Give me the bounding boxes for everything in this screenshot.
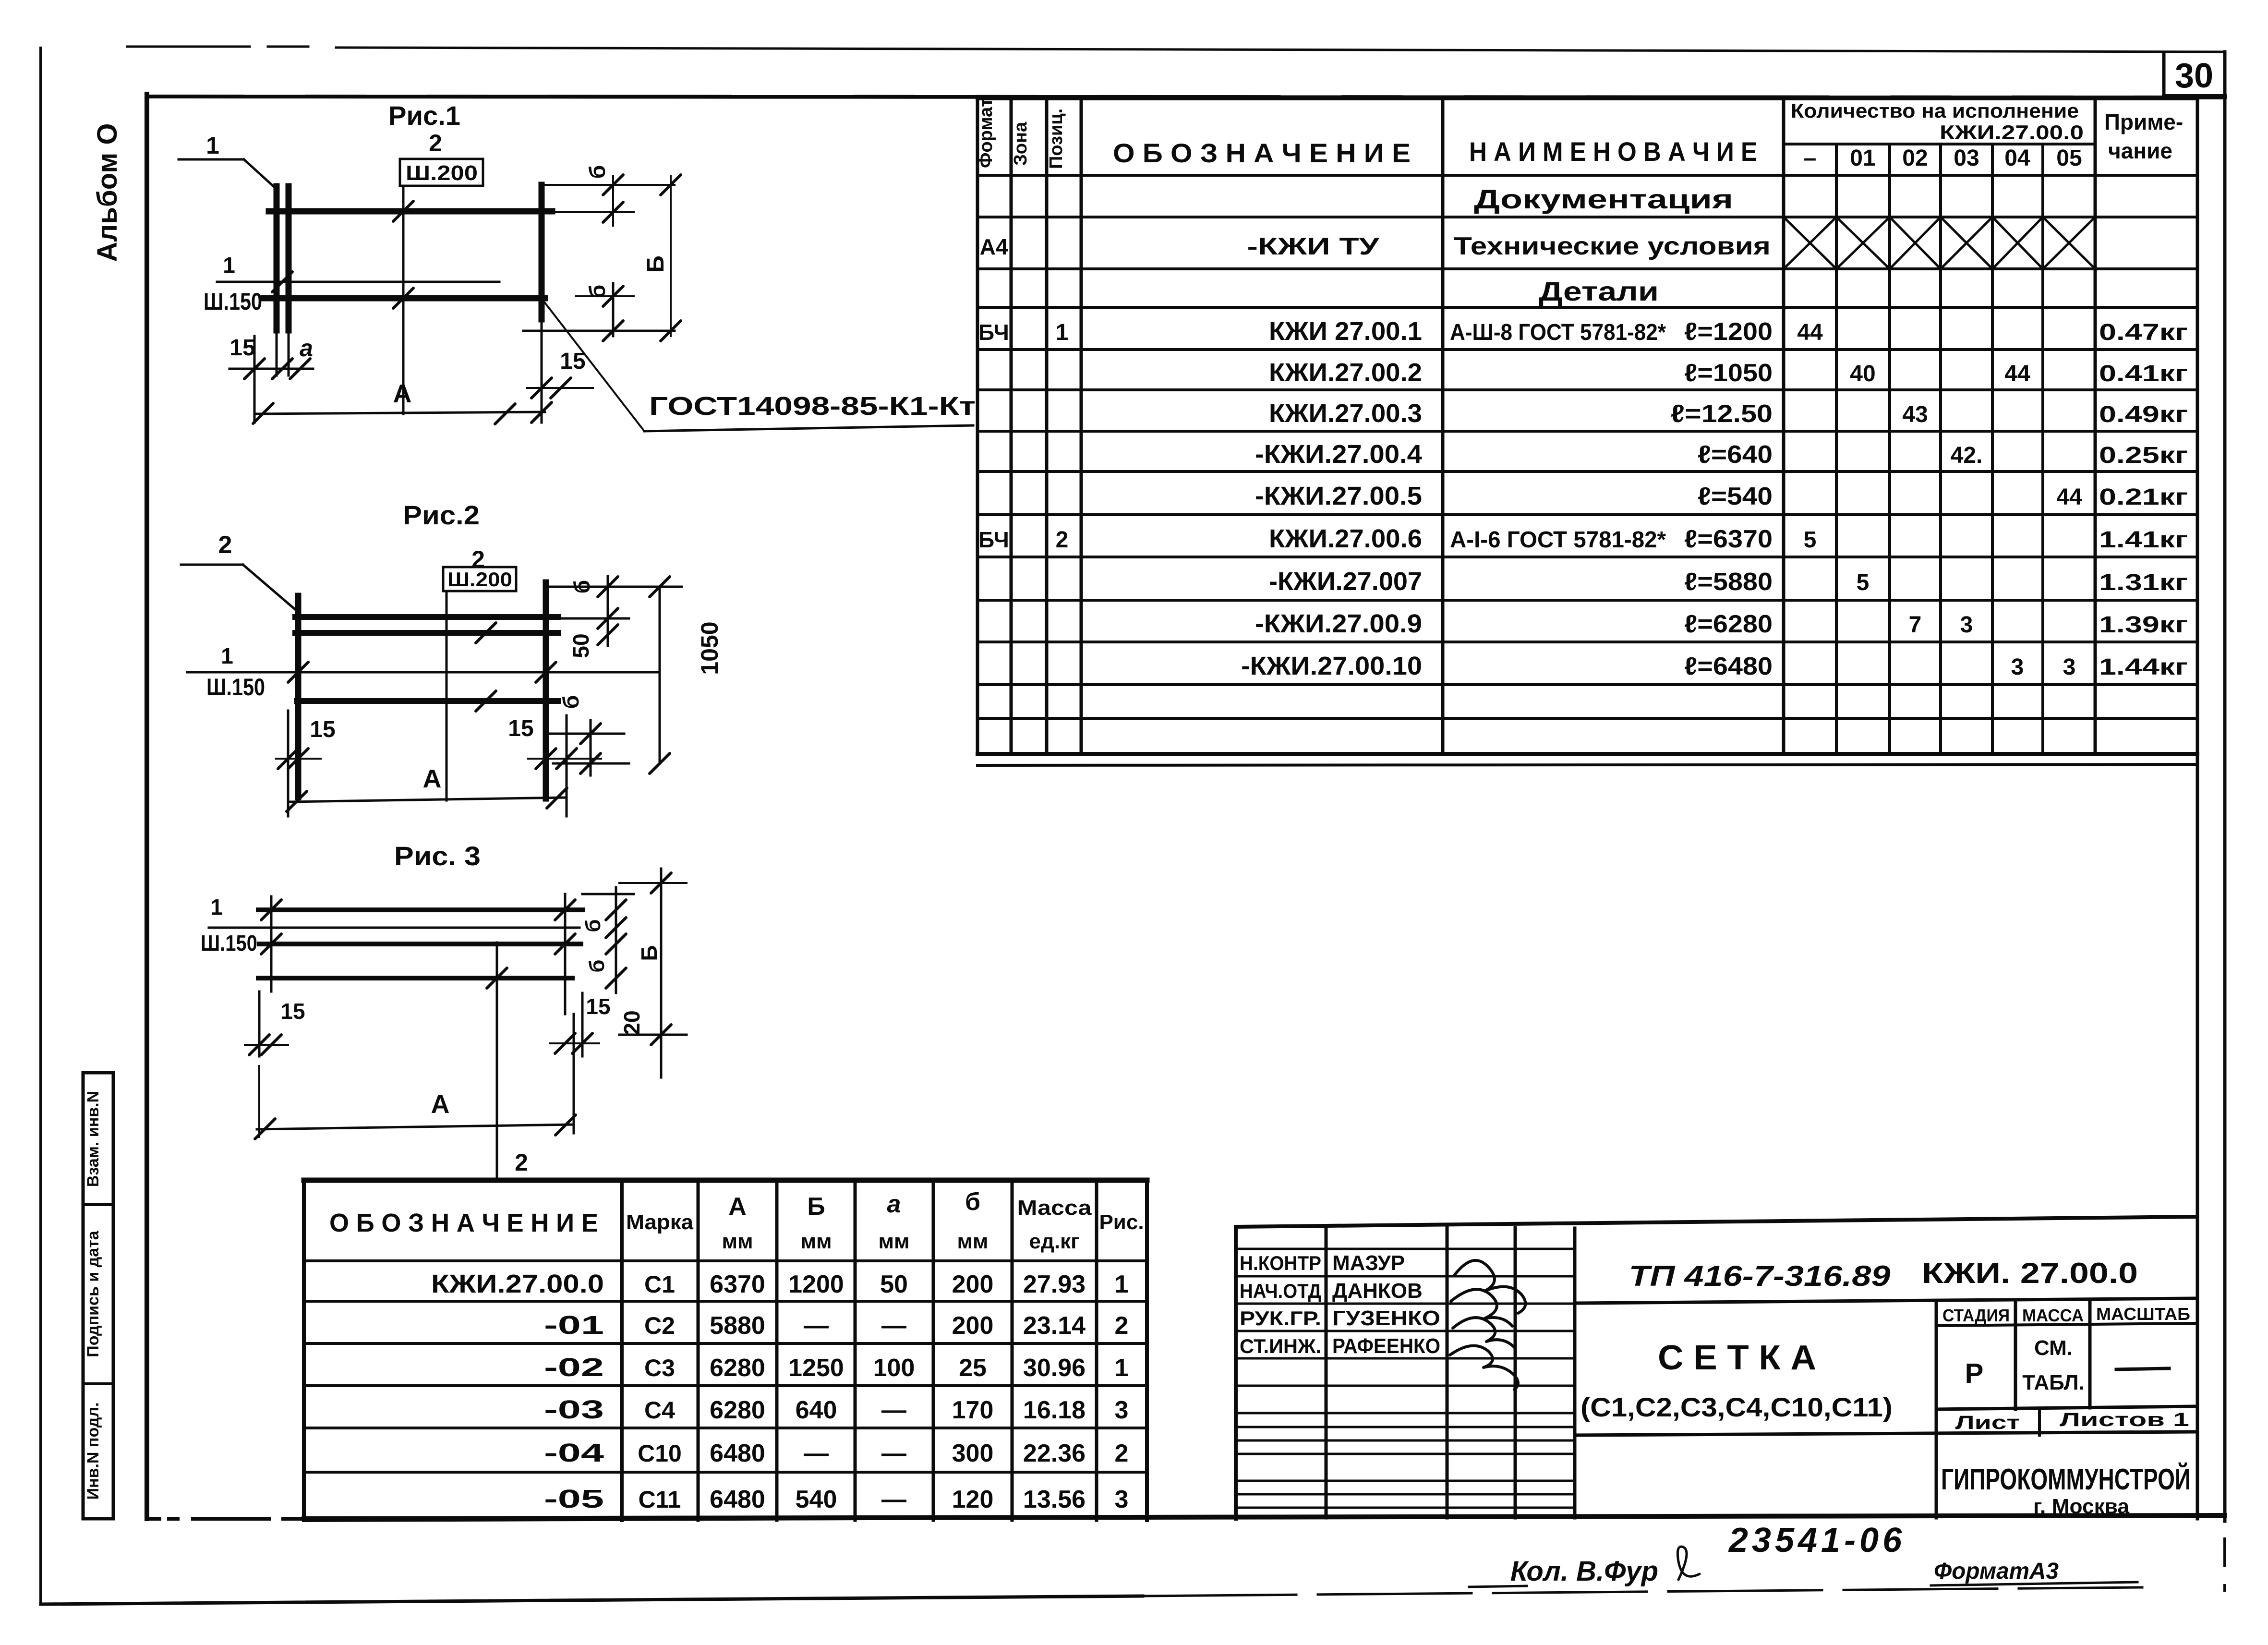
svg-text:А-Ш-8 ГОСТ 5781-82*: А-Ш-8 ГОСТ 5781-82* <box>1450 320 1666 345</box>
svg-text:42.: 42. <box>1951 443 1983 468</box>
svg-text:43: 43 <box>1902 402 1928 427</box>
svg-text:мм: мм <box>878 1230 909 1253</box>
svg-text:ед.кг: ед.кг <box>1029 1230 1080 1253</box>
svg-text:С10: С10 <box>638 1440 682 1467</box>
svg-text:1: 1 <box>210 895 223 919</box>
svg-text:Позиц.: Позиц. <box>1046 109 1066 169</box>
svg-text:А: А <box>431 1090 450 1119</box>
svg-text:ℓ=1200: ℓ=1200 <box>1684 318 1773 346</box>
svg-text:Рис.2: Рис.2 <box>403 500 480 530</box>
svg-text:27.93: 27.93 <box>1023 1270 1086 1298</box>
svg-text:Зона: Зона <box>1011 121 1031 166</box>
svg-text:СТ.ИНЖ.: СТ.ИНЖ. <box>1240 1335 1321 1357</box>
svg-text:3: 3 <box>2011 654 2024 680</box>
svg-text:Ш.150: Ш.150 <box>206 674 265 701</box>
svg-text:–: – <box>1804 145 1817 171</box>
svg-text:200: 200 <box>952 1312 994 1340</box>
svg-text:б: б <box>585 165 610 179</box>
svg-text:МАССА: МАССА <box>2022 1306 2084 1325</box>
svg-text:3: 3 <box>1115 1486 1129 1513</box>
svg-text:20: 20 <box>619 1010 644 1035</box>
svg-text:15: 15 <box>229 335 255 361</box>
svg-text:КЖИ. 27.00.0: КЖИ. 27.00.0 <box>1922 1257 2138 1289</box>
svg-text:0.49кг: 0.49кг <box>2099 402 2188 427</box>
svg-text:25: 25 <box>959 1354 987 1382</box>
svg-text:1: 1 <box>206 132 219 159</box>
svg-text:-КЖИ.27.00.4: -КЖИ.27.00.4 <box>1255 440 1422 469</box>
svg-text:Листов 1: Листов 1 <box>2060 1409 2189 1430</box>
svg-text:120: 120 <box>952 1486 994 1513</box>
svg-text:16.18: 16.18 <box>1023 1396 1086 1424</box>
svg-text:7: 7 <box>1909 612 1922 638</box>
svg-text:2: 2 <box>1115 1312 1129 1340</box>
svg-text:5880: 5880 <box>710 1312 765 1340</box>
svg-text:Лист: Лист <box>1955 1412 2020 1433</box>
svg-text:40: 40 <box>1850 361 1875 387</box>
svg-text:0.25кг: 0.25кг <box>2099 443 2188 468</box>
svg-text:0.21кг: 0.21кг <box>2099 484 2188 510</box>
svg-text:1250: 1250 <box>788 1354 844 1382</box>
svg-text:б: б <box>585 959 609 972</box>
svg-text:2: 2 <box>1115 1439 1129 1467</box>
svg-text:-КЖИ.27.00.5: -КЖИ.27.00.5 <box>1255 482 1422 510</box>
svg-text:05: 05 <box>2056 145 2082 171</box>
svg-text:1: 1 <box>223 253 235 278</box>
svg-text:Технические условия: Технические условия <box>1454 232 1771 260</box>
svg-text:мм: мм <box>800 1230 832 1253</box>
svg-text:-01: -01 <box>544 1311 604 1340</box>
svg-text:ℓ=12.50: ℓ=12.50 <box>1671 400 1773 428</box>
svg-text:БЧ: БЧ <box>978 320 1009 345</box>
svg-text:ℓ=1050: ℓ=1050 <box>1684 359 1773 387</box>
svg-text:—: — <box>804 1312 829 1340</box>
svg-text:ДАНКОВ: ДАНКОВ <box>1332 1279 1423 1303</box>
svg-text:1050: 1050 <box>696 621 723 675</box>
svg-text:6280: 6280 <box>710 1354 765 1382</box>
svg-text:С4: С4 <box>644 1397 675 1424</box>
svg-text:(С1,С2,С3,С4,С10,С11): (С1,С2,С3,С4,С10,С11) <box>1580 1392 1893 1422</box>
svg-text:300: 300 <box>952 1439 994 1467</box>
svg-text:ТАБЛ.: ТАБЛ. <box>2022 1371 2085 1394</box>
svg-text:1.44кг: 1.44кг <box>2099 654 2188 680</box>
svg-text:СТАДИЯ: СТАДИЯ <box>1942 1306 2010 1325</box>
svg-text:МАСШТАБ: МАСШТАБ <box>2096 1304 2190 1324</box>
svg-text:3: 3 <box>1115 1396 1129 1424</box>
svg-text:ГОСТ14098-85-К1-Кт: ГОСТ14098-85-К1-Кт <box>649 392 976 421</box>
svg-text:ℓ=6480: ℓ=6480 <box>1684 653 1773 680</box>
svg-text:С2: С2 <box>644 1312 675 1339</box>
svg-text:Подпись и дата: Подпись и дата <box>84 1230 102 1357</box>
svg-text:А: А <box>393 379 412 408</box>
svg-text:—: — <box>804 1439 829 1467</box>
svg-text:КЖИ.27.00.0: КЖИ.27.00.0 <box>431 1270 604 1298</box>
svg-text:б: б <box>585 285 610 298</box>
svg-text:15: 15 <box>310 717 335 742</box>
svg-text:Масса: Масса <box>1017 1196 1092 1220</box>
svg-text:0.41кг: 0.41кг <box>2099 361 2188 387</box>
svg-text:Р: Р <box>1965 1358 1984 1389</box>
svg-text:1.39кг: 1.39кг <box>2099 612 2188 638</box>
svg-text:ФорматА3: ФорматА3 <box>1934 1559 2059 1584</box>
svg-text:МАЗУР: МАЗУР <box>1332 1251 1405 1275</box>
svg-text:1200: 1200 <box>788 1270 844 1298</box>
svg-text:ℓ=5880: ℓ=5880 <box>1684 568 1773 596</box>
svg-text:Документация: Документация <box>1474 184 1733 214</box>
svg-text:а: а <box>887 1190 901 1218</box>
svg-text:Н А И М Е Н О В А Ч И Е: Н А И М Е Н О В А Ч И Е <box>1469 136 1757 167</box>
svg-text:СМ.: СМ. <box>2034 1336 2073 1360</box>
svg-text:ГУЗЕНКО: ГУЗЕНКО <box>1332 1306 1440 1330</box>
svg-text:А4: А4 <box>980 234 1008 259</box>
svg-text:2: 2 <box>515 1149 528 1176</box>
svg-text:ℓ=6280: ℓ=6280 <box>1684 610 1773 638</box>
svg-text:15: 15 <box>586 994 610 1019</box>
svg-text:РУК.ГР.: РУК.ГР. <box>1240 1307 1321 1330</box>
svg-text:1: 1 <box>221 643 233 668</box>
svg-text:03: 03 <box>1954 145 1979 171</box>
svg-text:Н.КОНТР: Н.КОНТР <box>1240 1252 1321 1274</box>
svg-text:Рис.: Рис. <box>1099 1210 1144 1234</box>
svg-text:Б: Б <box>637 945 662 961</box>
svg-text:б: б <box>965 1188 980 1216</box>
svg-text:6480: 6480 <box>710 1486 765 1513</box>
svg-text:Кол. В.Фур: Кол. В.Фур <box>1510 1556 1658 1587</box>
svg-text:Рис.1: Рис.1 <box>388 100 460 131</box>
svg-text:5: 5 <box>1804 527 1817 553</box>
svg-text:Рис. 3: Рис. 3 <box>394 841 481 871</box>
svg-text:-02: -02 <box>544 1353 604 1382</box>
svg-text:30.96: 30.96 <box>1023 1354 1086 1382</box>
svg-text:44: 44 <box>2004 361 2030 387</box>
svg-text:НАЧ.ОТД: НАЧ.ОТД <box>1240 1280 1321 1302</box>
svg-text:А: А <box>423 764 442 793</box>
svg-text:-03: -03 <box>544 1395 604 1424</box>
svg-text:640: 640 <box>796 1396 837 1424</box>
svg-text:04: 04 <box>2004 145 2030 171</box>
svg-text:-04: -04 <box>544 1439 604 1467</box>
svg-text:13.56: 13.56 <box>1023 1486 1086 1513</box>
svg-text:-КЖИ.27.00.10: -КЖИ.27.00.10 <box>1241 652 1422 680</box>
svg-text:Альбом О: Альбом О <box>92 123 123 262</box>
svg-text:15: 15 <box>280 999 305 1024</box>
svg-text:-КЖИ.27.007: -КЖИ.27.007 <box>1269 567 1422 596</box>
svg-text:ТП 416-7-316.89: ТП 416-7-316.89 <box>1629 1260 1891 1292</box>
svg-text:Взам. инв.N: Взам. инв.N <box>84 1091 102 1187</box>
svg-text:Количество на исполнение: Количество на исполнение <box>1791 99 2079 122</box>
svg-text:02: 02 <box>1902 145 1928 171</box>
svg-text:КЖИ.27.00.3: КЖИ.27.00.3 <box>1269 399 1422 428</box>
svg-text:Б: Б <box>807 1193 825 1221</box>
svg-text:С3: С3 <box>644 1355 675 1381</box>
svg-text:1: 1 <box>1115 1270 1129 1298</box>
svg-text:О Б О З Н А Ч Е Н И Е: О Б О З Н А Ч Е Н И Е <box>329 1209 598 1237</box>
svg-text:ℓ=6370: ℓ=6370 <box>1684 525 1773 553</box>
svg-text:—: — <box>881 1312 906 1340</box>
svg-text:О Б О З Н А Ч Е Н И Е: О Б О З Н А Ч Е Н И Е <box>1113 138 1411 168</box>
svg-text:б: б <box>569 580 594 593</box>
svg-text:-КЖИ.27.00.9: -КЖИ.27.00.9 <box>1255 609 1422 638</box>
svg-text:г. Москва: г. Москва <box>2033 1495 2130 1518</box>
svg-text:-КЖИ ТУ: -КЖИ ТУ <box>1247 233 1380 260</box>
svg-text:Ш.200: Ш.200 <box>406 161 478 185</box>
svg-text:—: — <box>881 1396 906 1424</box>
svg-text:100: 100 <box>873 1354 915 1382</box>
svg-text:15: 15 <box>560 349 585 374</box>
svg-text:5: 5 <box>1857 570 1870 595</box>
svg-text:—: — <box>881 1439 906 1467</box>
svg-text:БЧ: БЧ <box>978 527 1009 552</box>
svg-text:РАФЕЕНКО: РАФЕЕНКО <box>1332 1334 1440 1358</box>
svg-text:1.41кг: 1.41кг <box>2099 527 2188 553</box>
svg-text:КЖИ.27.00.2: КЖИ.27.00.2 <box>1269 358 1422 387</box>
svg-text:—: — <box>881 1486 906 1513</box>
svg-text:6480: 6480 <box>710 1439 765 1467</box>
svg-text:КЖИ 27.00.1: КЖИ 27.00.1 <box>1269 317 1422 346</box>
svg-text:КЖИ.27.00.0: КЖИ.27.00.0 <box>1940 121 2084 144</box>
svg-text:Марка: Марка <box>626 1210 694 1234</box>
svg-text:30: 30 <box>2175 57 2213 95</box>
svg-text:ℓ=640: ℓ=640 <box>1698 441 1773 469</box>
svg-text:мм: мм <box>957 1230 988 1253</box>
svg-text:-05: -05 <box>544 1485 604 1513</box>
svg-text:А-I-6 ГОСТ 5781-82*: А-I-6 ГОСТ 5781-82* <box>1450 527 1666 553</box>
svg-text:50: 50 <box>568 633 593 658</box>
svg-text:Ш.200: Ш.200 <box>447 568 512 591</box>
svg-text:2: 2 <box>1056 527 1069 553</box>
svg-text:15: 15 <box>508 716 533 741</box>
svg-text:6280: 6280 <box>710 1396 765 1424</box>
svg-text:мм: мм <box>722 1230 753 1253</box>
svg-text:22.36: 22.36 <box>1023 1439 1086 1467</box>
svg-text:23.14: 23.14 <box>1023 1312 1086 1340</box>
svg-text:ℓ=540: ℓ=540 <box>1698 483 1773 510</box>
svg-text:С11: С11 <box>639 1486 681 1513</box>
svg-text:44: 44 <box>1797 320 1823 345</box>
svg-text:a: a <box>300 335 313 362</box>
svg-text:б: б <box>581 919 605 932</box>
svg-text:50: 50 <box>880 1270 908 1298</box>
svg-text:0.47кг: 0.47кг <box>2099 320 2188 345</box>
svg-text:С Е Т К А: С Е Т К А <box>1658 1339 1816 1377</box>
svg-text:чание: чание <box>2108 138 2172 163</box>
svg-text:ГИПРОКОММУНСТРОЙ: ГИПРОКОММУНСТРОЙ <box>1941 1463 2191 1496</box>
svg-text:540: 540 <box>796 1486 837 1513</box>
svg-text:Детали: Детали <box>1539 276 1659 306</box>
svg-text:С1: С1 <box>644 1271 675 1298</box>
svg-text:3: 3 <box>2063 654 2076 680</box>
svg-text:44: 44 <box>2056 484 2082 510</box>
svg-text:Б: Б <box>642 255 669 273</box>
svg-text:1.31кг: 1.31кг <box>2099 570 2188 595</box>
svg-text:КЖИ.27.00.6: КЖИ.27.00.6 <box>1269 524 1422 553</box>
svg-text:б: б <box>558 695 583 709</box>
svg-text:6370: 6370 <box>710 1270 765 1298</box>
svg-text:Формат: Формат <box>976 98 996 168</box>
svg-text:2: 2 <box>429 130 442 157</box>
svg-text:01: 01 <box>1850 145 1875 171</box>
svg-text:Инв.N подл.: Инв.N подл. <box>84 1403 102 1500</box>
svg-text:23541-06: 23541-06 <box>1728 1521 1906 1560</box>
svg-text:А: А <box>728 1193 747 1221</box>
svg-text:2: 2 <box>218 531 232 559</box>
svg-text:3: 3 <box>1960 612 1973 638</box>
svg-text:Ш.150: Ш.150 <box>201 931 257 956</box>
svg-text:170: 170 <box>952 1396 994 1424</box>
svg-text:Ш.150: Ш.150 <box>204 288 262 315</box>
svg-text:1: 1 <box>1056 320 1069 345</box>
svg-text:200: 200 <box>952 1270 994 1298</box>
svg-text:Приме-: Приме- <box>2104 109 2183 134</box>
svg-text:1: 1 <box>1115 1354 1129 1382</box>
